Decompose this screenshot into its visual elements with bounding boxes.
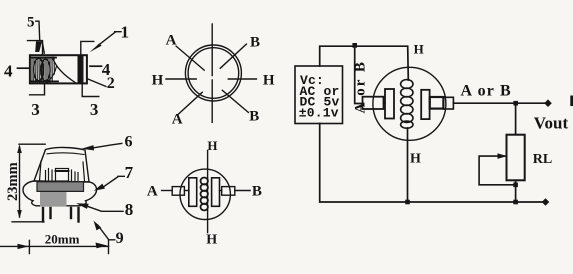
- svg-text:A: A: [147, 184, 158, 200]
- svg-text:3: 3: [31, 100, 40, 119]
- svg-text:±0.1v: ±0.1v: [299, 106, 339, 121]
- svg-text:B: B: [252, 184, 262, 200]
- svg-text:6: 6: [125, 133, 133, 150]
- svg-text:1: 1: [121, 23, 130, 42]
- svg-text:7: 7: [125, 163, 134, 182]
- svg-text:20mm: 20mm: [45, 232, 80, 247]
- svg-text:5: 5: [27, 15, 35, 31]
- svg-text:H: H: [207, 138, 217, 153]
- svg-text:H: H: [410, 152, 421, 167]
- svg-text:H: H: [414, 42, 424, 57]
- svg-text:H: H: [206, 232, 217, 247]
- svg-text:8: 8: [125, 200, 134, 219]
- svg-text:B: B: [250, 34, 260, 50]
- svg-text:Vout: Vout: [534, 114, 569, 133]
- svg-text:RL: RL: [533, 152, 552, 167]
- svg-text:H: H: [263, 73, 275, 89]
- svg-text:3: 3: [90, 100, 99, 119]
- svg-text:B: B: [249, 109, 259, 125]
- svg-text:A or B: A or B: [353, 60, 369, 113]
- svg-text:4: 4: [4, 61, 13, 80]
- svg-text:9: 9: [116, 230, 124, 247]
- svg-text:2: 2: [107, 75, 115, 92]
- svg-text:23mm: 23mm: [5, 162, 21, 201]
- svg-text:H: H: [152, 73, 164, 89]
- svg-text:A: A: [166, 32, 177, 48]
- svg-text:A or B: A or B: [461, 82, 512, 99]
- svg-text:A: A: [172, 112, 183, 128]
